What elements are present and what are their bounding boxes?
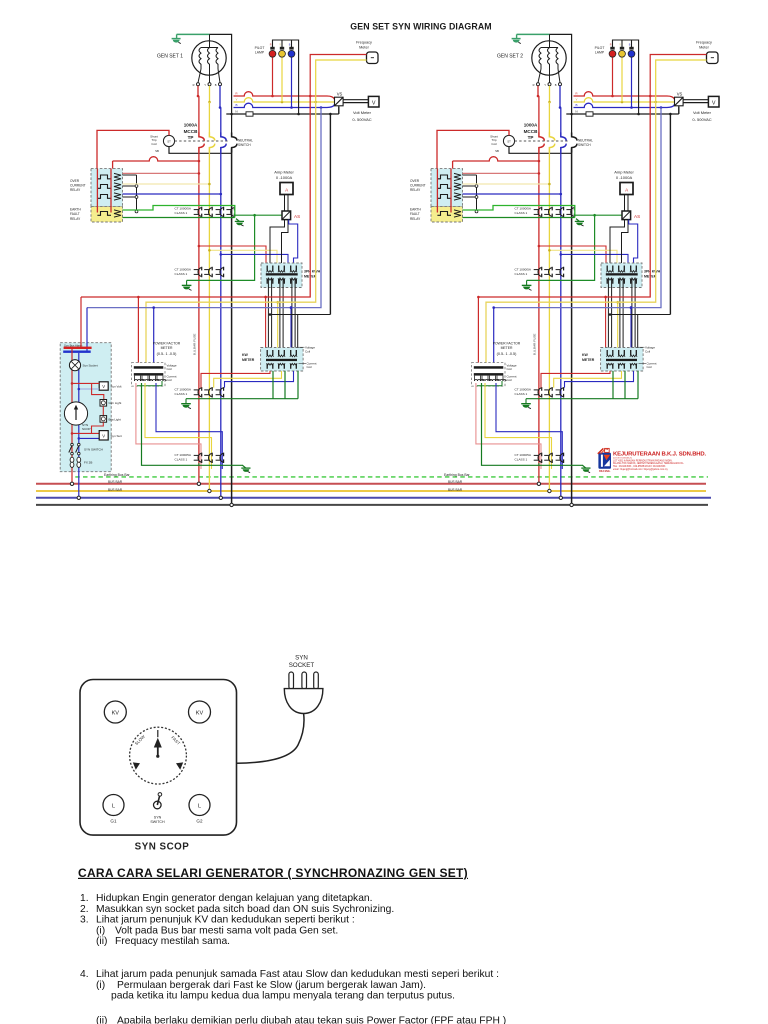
svg-text:G2: G2: [196, 818, 203, 823]
svg-text:RELAY: RELAY: [410, 217, 421, 221]
svg-text:RELAY: RELAY: [70, 217, 81, 221]
svg-text:Syn Socket: Syn Socket: [83, 364, 98, 368]
svg-text:AS: AS: [634, 214, 640, 219]
wire green CT common to AS: [575, 214, 622, 216]
svg-text:PILOT: PILOT: [595, 46, 605, 50]
wire OCR to R phase: [123, 172, 199, 174]
svg-text:TEL : 09-6234533 , 019-9553543: TEL : 09-6234533 , 019-9553543 FAX: 09-6…: [613, 465, 666, 468]
svg-text:VS: VS: [337, 92, 343, 97]
CT T11 B: [220, 208, 223, 217]
wire kWh to KW meter pairs: [267, 278, 269, 358]
svg-text:B.U.BAR FUSE: B.U.BAR FUSE: [532, 334, 536, 356]
selector switch AS1: [282, 211, 291, 220]
CT T13 R: [198, 388, 201, 397]
relay red bus verticals gen1: [96, 169, 98, 213]
svg-text:CLASS 1: CLASS 1: [515, 392, 528, 396]
CT T12 R: [198, 268, 201, 277]
bila light box: [102, 406, 104, 416]
wire R voltage tap KW: [265, 297, 267, 356]
wire green CT common loop: [187, 215, 255, 280]
wire EFR green upper: [463, 206, 575, 218]
wire R main vertical gen1: [198, 96, 200, 133]
wire Y main vertical gen2: [548, 102, 550, 133]
svg-text:3PH KWH: 3PH KWH: [644, 270, 661, 274]
wire KW green current returns: [612, 371, 614, 399]
svg-text:LOT 4351 KAWASAN PERINDUSTRIAN: LOT 4351 KAWASAN PERINDUSTRIAN PADANG MI…: [613, 459, 673, 462]
svg-text:SWITCH: SWITCH: [238, 143, 251, 147]
wire neutral tap to right drop: [610, 314, 670, 316]
svg-text:RELAY: RELAY: [410, 188, 421, 192]
wire green CT common to AS: [235, 214, 282, 216]
wire red lamp drop: [272, 58, 274, 97]
svg-text:CT 1000/5A: CT 1000/5A: [515, 207, 532, 211]
wire PF pink to CT row4 R: [476, 383, 541, 469]
terminal B of G2: [559, 83, 562, 86]
wire N main vertical gen1: [231, 148, 233, 506]
svg-text:Coil: Coil: [167, 367, 173, 371]
svg-text:(i): (i): [96, 925, 105, 936]
svg-text:CLASS 1: CLASS 1: [515, 458, 528, 462]
svg-text:(0.5- 1 -0.5): (0.5- 1 -0.5): [497, 352, 518, 356]
CT T13 Y: [209, 388, 212, 397]
PF meter coil common: [477, 385, 502, 387]
svg-text:METER: METER: [161, 346, 173, 350]
svg-text:Coil: Coil: [645, 349, 651, 353]
wire R main vertical gen2: [538, 96, 540, 133]
wire row4 green stubs: [538, 463, 540, 465]
wire B main vertical gen1: [220, 108, 222, 134]
wire N bus gen2: [566, 113, 679, 115]
svg-text:L: L: [112, 803, 115, 809]
MCCB trip linkage (dashed): [175, 140, 229, 142]
svg-text:Coil: Coil: [305, 349, 311, 353]
wire blue lamp drop: [291, 58, 293, 108]
MCCB pole R: [199, 133, 204, 141]
ground CT row2: [526, 280, 528, 285]
svg-text:CLASS 1: CLASS 1: [515, 211, 528, 215]
earth arrow CT row4: [243, 465, 246, 468]
wire B phase bus gen2: [574, 103, 675, 107]
svg-text:CLASS 1: CLASS 1: [175, 458, 188, 462]
wire R to frequency meter: [650, 55, 706, 97]
svg-text:BKJ ENG.: BKJ ENG.: [599, 470, 611, 473]
syn switch toggle: [154, 801, 162, 809]
wire R tap to kWh meter: [539, 246, 606, 272]
wire R voltage tap KW: [605, 297, 607, 356]
svg-text:EARTH: EARTH: [70, 208, 81, 212]
syn suit meter box: [72, 432, 99, 434]
wire PF green earth run: [142, 383, 244, 465]
wire R drop to PF meter: [477, 297, 479, 366]
svg-text:SWITCH: SWITCH: [150, 820, 165, 824]
wire Y phase bus gen1: [234, 98, 335, 102]
svg-text:V: V: [712, 101, 716, 107]
wire R phase bus gen2: [574, 92, 675, 100]
svg-text:METER: METER: [582, 358, 595, 362]
svg-text:Gyn Light: Gyn Light: [109, 401, 122, 405]
svg-text:B.U.BAR FUSE: B.U.BAR FUSE: [192, 334, 196, 356]
syn blue bus bar: [63, 351, 90, 353]
svg-text:BUS BAR: BUS BAR: [108, 480, 123, 484]
svg-text:N: N: [235, 110, 237, 114]
neutral switch gen2: [572, 133, 577, 141]
syn volt meter box: [99, 382, 108, 390]
syn scop dial small: [64, 402, 87, 425]
svg-text:Frequacy: Frequacy: [696, 41, 712, 45]
shunt trip coil gen2: [503, 135, 514, 146]
pilot lamp frame gen2: [613, 40, 639, 114]
ground E2 (generator frame earth): [516, 34, 518, 38]
svg-text:MCCB: MCCB: [184, 129, 198, 134]
svg-text:Coil: Coil: [307, 365, 313, 369]
svg-text:CT 1000/5A: CT 1000/5A: [175, 453, 192, 457]
wire AS to kWh lead A: [610, 220, 625, 272]
bus bar N (black): [36, 504, 708, 506]
wire B feed horizontal gen2: [494, 108, 661, 308]
syn socket symbol: [69, 360, 80, 371]
wire Y terminal to Y bus: [209, 86, 211, 102]
svg-text:LAMP: LAMP: [255, 51, 265, 55]
svg-text:SB: SB: [155, 149, 159, 153]
svg-text:GEN SET 1: GEN SET 1: [157, 54, 183, 60]
svg-text:4.: 4.: [80, 969, 89, 980]
pilot lamp blue L1B: [288, 50, 295, 57]
MCCB trip linkage (dashed): [515, 140, 569, 142]
pilot lamp red L1R: [269, 50, 276, 57]
svg-text:CLASS 1: CLASS 1: [175, 211, 188, 215]
wire row4 green stubs: [198, 463, 200, 465]
CT T24 B: [560, 453, 563, 462]
svg-text:SB: SB: [495, 149, 499, 153]
MCCB pole B: [221, 133, 226, 141]
CT T14 R: [198, 453, 201, 462]
svg-text:KEJURUTERAAN B.K.J. SDN.BHD.: KEJURUTERAAN B.K.J. SDN.BHD.: [613, 451, 707, 457]
wire generator G2 frame to earth: [517, 33, 550, 35]
svg-text:VS: VS: [677, 92, 683, 97]
wire KW yellow to CT row3: [554, 371, 622, 388]
pilot lamp frame gen1: [273, 40, 299, 114]
ground KW meter CT row3: [185, 399, 187, 404]
svg-text:KV: KV: [112, 710, 120, 716]
bus bar Y (yellow): [36, 490, 706, 492]
svg-text:LAMP: LAMP: [595, 51, 605, 55]
plug cord: [237, 714, 304, 764]
CT T14 B: [220, 453, 223, 462]
earth arrow CT row1: [236, 219, 239, 222]
svg-text:ST: ST: [167, 139, 171, 143]
svg-text:Lihat jarum penunjuk KV dan ke: Lihat jarum penunjuk KV dan kedudukan se…: [96, 915, 355, 926]
wire R terminal to R bus: [537, 86, 539, 96]
svg-text:Y: Y: [575, 97, 577, 101]
over current relay K11 box: [91, 169, 123, 207]
svg-text:EARTH: EARTH: [410, 208, 421, 212]
svg-text:CT 1000/5A: CT 1000/5A: [175, 268, 192, 272]
svg-text:Y: Y: [204, 83, 206, 87]
svg-text:CLASS 1: CLASS 1: [175, 392, 188, 396]
kWh meter M21 box: [601, 263, 642, 288]
svg-text:TP: TP: [528, 135, 534, 140]
svg-text:Earthing Bus Bar: Earthing Bus Bar: [444, 473, 471, 477]
wire B drop to PF meter: [153, 308, 155, 367]
svg-text:Coil: Coil: [491, 142, 497, 146]
generator G2 (GEN SET 2): [532, 41, 566, 75]
svg-text:PILOT: PILOT: [255, 46, 265, 50]
terminal Y of G2: [548, 83, 551, 86]
volt meter V2: [708, 96, 719, 107]
wire lights to syn suit: [92, 422, 104, 433]
neutral switch gen1: [232, 133, 237, 141]
CT T12 Y: [209, 268, 212, 277]
wire OCR to R phase: [463, 172, 539, 174]
wire red relay link with fuse bump: [453, 157, 539, 161]
wire B tap to kWh meter: [561, 254, 628, 271]
wire amp meter to AS: [624, 195, 626, 212]
terminal R of G2: [537, 83, 540, 86]
KV meter left: [104, 701, 126, 723]
wire syn blue vertical: [78, 353, 80, 498]
svg-text:OVER: OVER: [70, 179, 80, 183]
wire Y terminal to Y bus: [549, 86, 551, 102]
svg-text:ST: ST: [507, 139, 511, 143]
syn scop panel box: [80, 680, 237, 836]
svg-text:KW: KW: [582, 353, 589, 357]
svg-text:G1: G1: [110, 818, 117, 823]
wire AS to kWh lead A: [270, 220, 285, 272]
svg-text:Bila Light: Bila Light: [109, 417, 122, 421]
wire VS to volt meter: [683, 99, 708, 101]
shunt trip coil gen1: [163, 135, 174, 146]
svg-text:V: V: [372, 101, 376, 107]
wire N bus gen1: [226, 113, 338, 115]
wire red trip feed gen2: [437, 130, 509, 169]
wire OCR to B phase: [463, 193, 561, 195]
svg-text:Masukkan syn socket pada sitc: Masukkan syn socket pada sitch boad dan …: [96, 904, 394, 915]
svg-text:3.: 3.: [80, 915, 89, 926]
svg-text:(CO.NO:625348-X): (CO.NO:625348-X): [613, 458, 632, 460]
wire PF blue to CT row4 B: [156, 383, 222, 469]
CT T24 Y: [549, 453, 552, 462]
svg-text:AS: AS: [294, 214, 300, 219]
wire under MCCB (neutral link): [169, 147, 232, 154]
svg-text:pada ketika itu lampu kedua du: pada ketika itu lampu kedua dua lampu me…: [111, 991, 455, 1002]
KW meter M23 box: [601, 348, 644, 372]
wire KW red to CT row3: [541, 371, 610, 388]
earth arrow CT row1: [576, 219, 579, 222]
wire R tap to kWh meter: [199, 246, 266, 272]
pilot lamp red L2R: [609, 50, 616, 57]
wire yellow lamp drop: [621, 58, 623, 103]
svg-text:Y: Y: [235, 97, 237, 101]
svg-text:B: B: [555, 83, 557, 87]
CT T23 B: [560, 388, 563, 397]
wire Y to frequency meter: [316, 60, 367, 102]
wire Y phase bus gen2: [574, 98, 675, 102]
terminal R of G1: [197, 83, 200, 86]
svg-text:Meter: Meter: [699, 46, 709, 50]
KW meter M13 box: [261, 348, 304, 372]
svg-text:(i): (i): [96, 980, 105, 991]
svg-text:POWER FACTOR: POWER FACTOR: [153, 342, 181, 346]
CT T11 Y: [209, 208, 212, 217]
wire KW green current returns: [272, 371, 274, 399]
svg-text:CURRENT: CURRENT: [410, 184, 426, 188]
bus bar B (blue): [36, 497, 711, 499]
gyn light box: [92, 384, 104, 400]
wire KW blue to CT row3: [225, 371, 294, 388]
kWh meter M11 box: [261, 263, 302, 288]
wire PF yellow to CT row4 Y: [145, 383, 212, 469]
svg-text:OVER: OVER: [410, 179, 420, 183]
svg-text:0 -1000A: 0 -1000A: [616, 175, 633, 180]
CT T22 R: [538, 268, 541, 277]
svg-text:B: B: [215, 83, 217, 87]
junction dots on phase buses gen2: [537, 95, 540, 98]
wire Y voltage tap KW: [277, 302, 279, 356]
svg-text:SYN: SYN: [295, 654, 308, 661]
ground CT row2: [186, 280, 188, 285]
svg-text:NEUTRAL: NEUTRAL: [238, 138, 253, 142]
wire red trip feed gen1: [97, 130, 169, 169]
wire AS to kWh lead B: [282, 220, 289, 272]
svg-text:Coil: Coil: [167, 378, 173, 382]
wire R to frequency meter: [310, 55, 366, 97]
svg-text:Lihat jarum pada penunjuk sama: Lihat jarum pada penunjuk samada Fast at…: [96, 969, 499, 980]
svg-text:1.: 1.: [80, 893, 89, 904]
wire B tap to kWh meter: [221, 254, 288, 271]
svg-text:CURRENT: CURRENT: [70, 184, 86, 188]
svg-text:Coil: Coil: [507, 367, 513, 371]
svg-text:(0.5- 1 -0.5): (0.5- 1 -0.5): [157, 352, 178, 356]
company logo mark: [598, 453, 611, 469]
wire Y main vertical gen1: [208, 102, 210, 133]
earth fault relay K22 box: [431, 207, 463, 222]
CT T24 R: [538, 453, 541, 462]
svg-text:BUS BAR: BUS BAR: [448, 480, 463, 484]
CT T23 R: [538, 388, 541, 397]
wire OCR to Y phase: [463, 183, 550, 185]
wire PF yellow to CT row4 Y: [485, 383, 552, 469]
wire EFR green lower: [463, 217, 575, 219]
svg-text:CT 1000/5A: CT 1000/5A: [515, 453, 532, 457]
svg-text:V: V: [102, 384, 105, 389]
synchroscope dial: [130, 727, 187, 784]
svg-text:Amp Meter: Amp Meter: [614, 170, 634, 175]
svg-text:N: N: [575, 110, 577, 114]
svg-text:TP: TP: [188, 135, 194, 140]
svg-text:SYN SWITCH: SYN SWITCH: [84, 447, 103, 451]
svg-text:NEUTRAL: NEUTRAL: [578, 138, 593, 142]
wire yellow lamp drop: [281, 58, 283, 103]
wire B voltage tap KW: [630, 308, 632, 356]
MCCB pole Y: [209, 133, 214, 141]
svg-text:R: R: [610, 44, 612, 47]
wire AS to kWh lead blue: [289, 220, 298, 269]
CT T11 N: [231, 208, 234, 217]
wire R feed horizontal gen1: [81, 96, 310, 297]
svg-text:FX 2B: FX 2B: [84, 460, 92, 464]
svg-text:3PH KWH: 3PH KWH: [304, 270, 321, 274]
svg-text:Volt Meter: Volt Meter: [693, 110, 712, 115]
wire EFR green lower: [123, 217, 235, 219]
CT T21 Y: [549, 208, 552, 217]
svg-text:Syn Volt: Syn Volt: [111, 384, 122, 388]
syn bus alarm box: [60, 343, 111, 472]
wire B drop to PF meter: [493, 308, 495, 367]
svg-text:Y: Y: [544, 83, 546, 87]
wire R drop to PF meter: [137, 297, 139, 366]
svg-text:METER: METER: [501, 346, 513, 350]
relay red bus verticals gen2: [436, 169, 438, 213]
svg-text:BUS BAR: BUS BAR: [448, 488, 463, 492]
wire OCR to Y phase: [123, 183, 210, 185]
svg-text:Syn Suit: Syn Suit: [111, 434, 122, 438]
wire syn red vertical: [71, 349, 73, 484]
svg-text:CT 1000/5A: CT 1000/5A: [175, 207, 192, 211]
svg-text:KW: KW: [242, 353, 249, 357]
bus bar R (red): [36, 483, 706, 485]
wire Y feed horizontal gen2: [486, 102, 656, 366]
earth arrow CT row4: [583, 465, 586, 468]
svg-text:email : bkjeng@hotmail.com / b: email : bkjeng@hotmail.com / bkjeng@yaho…: [613, 468, 669, 471]
svg-text:Coil: Coil: [507, 378, 513, 382]
svg-text:Frequacy mestilah sama.: Frequacy mestilah sama.: [115, 936, 230, 947]
svg-text:BUS BAR: BUS BAR: [108, 488, 123, 492]
svg-text:CARA CARA SELARI GENERATOR ( S: CARA CARA SELARI GENERATOR ( SYNCHRONAZI…: [78, 866, 468, 880]
MCCB pole Y: [549, 133, 554, 141]
svg-text:POWER FACTOR: POWER FACTOR: [493, 342, 521, 346]
svg-text:Volt Meter: Volt Meter: [353, 110, 372, 115]
svg-text:0 -1000A: 0 -1000A: [276, 175, 293, 180]
wire Y feed horizontal gen1: [146, 102, 316, 366]
svg-text:Coil: Coil: [151, 142, 157, 146]
relay contacts gen2: [437, 175, 451, 179]
wire kWh to KW meter pairs: [607, 278, 609, 358]
wire blue to syn volt: [79, 388, 99, 390]
wire red to syn volt: [72, 382, 99, 384]
wire VS to volt meter: [343, 99, 368, 101]
svg-text:KILANG TOK NAROK, JERTEH TEREN: KILANG TOK NAROK, JERTEH TERENGGANU, TER…: [613, 462, 684, 465]
wire KW yellow to CT row3: [214, 371, 282, 388]
wire green CT common loop: [527, 215, 595, 280]
ground E1 (generator frame earth): [176, 34, 178, 38]
CT T12 B: [220, 268, 223, 277]
svg-text:Hidupkan Engin generator denga: Hidupkan Engin generator dengan kelajuan…: [96, 893, 373, 904]
pilot lamp yellow L1Y: [279, 50, 286, 57]
wire Y voltage tap KW: [617, 302, 619, 356]
wire KW red to CT row3: [201, 371, 270, 388]
svg-text:R: R: [533, 83, 535, 87]
svg-text:R: R: [193, 83, 195, 87]
earth fault relay K12 box: [91, 207, 123, 222]
svg-text:Amp Meter: Amp Meter: [274, 170, 294, 175]
lamp L G1: [103, 795, 124, 816]
svg-text:SCOP: SCOP: [82, 427, 91, 431]
svg-text:CT 1000/5A: CT 1000/5A: [515, 388, 532, 392]
svg-text:R: R: [270, 44, 272, 47]
syn switch contacts: [71, 443, 74, 446]
wire Y tap to kWh meter: [549, 250, 617, 271]
svg-text:METER: METER: [242, 358, 255, 362]
svg-text:CLASS 1: CLASS 1: [175, 272, 188, 276]
MCCB pole B: [561, 133, 566, 141]
svg-text:SWITCH: SWITCH: [578, 143, 591, 147]
svg-text:1000A: 1000A: [184, 123, 198, 128]
svg-text:FAULT: FAULT: [410, 212, 420, 216]
wire PF green earth run: [482, 383, 584, 465]
relay contacts gen1: [97, 175, 111, 179]
wire amp meter to AS: [284, 195, 286, 212]
selector switch AS2: [622, 211, 631, 220]
